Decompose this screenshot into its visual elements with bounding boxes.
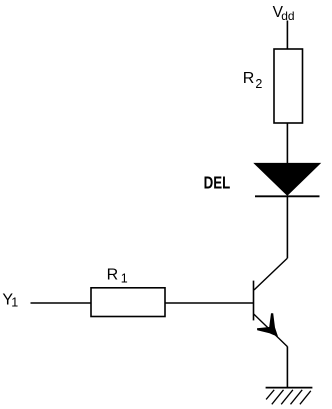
node Y1 label	[2, 292, 18, 310]
ground bar	[266, 387, 313, 389]
svg-text:DEL: DEL	[204, 172, 231, 192]
svg-text:1: 1	[121, 272, 128, 286]
node Vdd label	[273, 4, 295, 23]
wire R1 right to transistor base	[165, 302, 254, 304]
wire emitter to ground	[286, 347, 288, 388]
transistor Q1 emitter arrow	[257, 313, 278, 336]
resistor R1 label	[107, 266, 128, 285]
transistor Q1 base bar	[253, 281, 255, 321]
LED DEL anode triangle	[255, 163, 321, 195]
transistor Q1 collector diagonal	[254, 258, 287, 290]
wire Y1 to R1 left	[31, 302, 92, 304]
ground hatching	[266, 390, 311, 405]
svg-text:R: R	[107, 266, 119, 283]
transistor Q1 emitter diagonal	[254, 314, 288, 347]
resistor R1 body	[91, 288, 165, 317]
svg-text:2: 2	[255, 77, 262, 91]
resistor R2 label	[243, 70, 263, 91]
LED DEL cathode bar	[255, 195, 320, 197]
wire R2 bottom to LED anode	[286, 123, 288, 164]
resistor R2 body	[274, 49, 303, 123]
svg-text:R: R	[243, 70, 255, 87]
wire LED cathode to transistor collector	[286, 196, 288, 258]
svg-text:1: 1	[11, 295, 18, 309]
wire Vdd to R2 top	[286, 21, 288, 50]
